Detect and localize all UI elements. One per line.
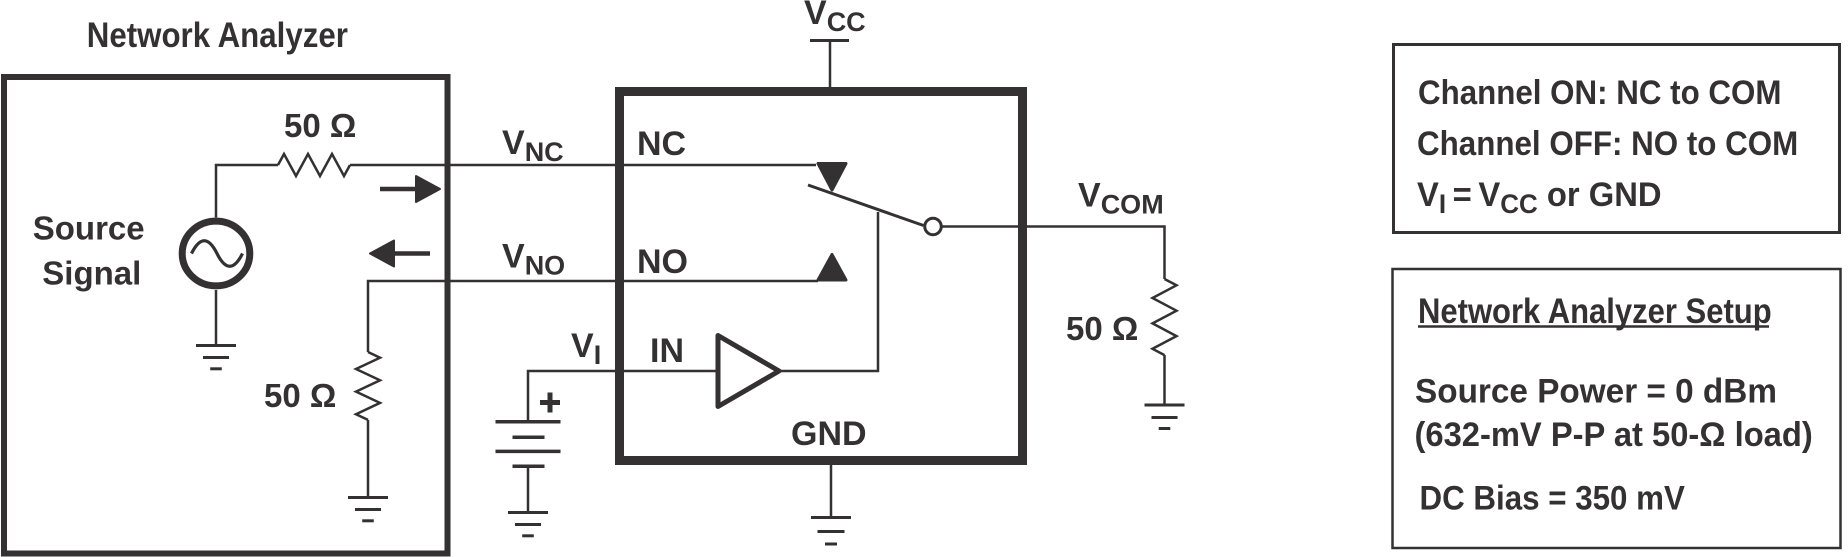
svg-text:NO: NO xyxy=(637,243,688,281)
svg-text:Signal: Signal xyxy=(42,255,141,292)
switch IC box U1 xyxy=(620,92,1023,461)
wire GND pin to ground xyxy=(830,465,833,517)
VCC supply bar xyxy=(810,39,849,42)
wire source top to resistor xyxy=(216,165,278,218)
svg-text:50 Ω: 50 Ω xyxy=(284,107,356,144)
svg-text:Channel OFF: NO to COM: Channel OFF: NO to COM xyxy=(1417,124,1798,162)
switch pole circle (COM) xyxy=(925,218,942,235)
switch pole arm (diagonal) xyxy=(808,185,924,226)
svg-text:(632-mV P-P at 50-Ω load): (632-mV P-P at 50-Ω load) xyxy=(1415,416,1813,454)
wire resistor to ground xyxy=(367,420,370,497)
wire load resistor to ground xyxy=(1163,355,1166,405)
svg-text:Source: Source xyxy=(33,210,145,247)
svg-text:50 Ω: 50 Ω xyxy=(264,377,336,414)
svg-text:50 Ω: 50 Ω xyxy=(1066,310,1138,347)
underline for title xyxy=(1418,325,1769,328)
resistor 50 Ω (series, horizontal) xyxy=(278,154,350,176)
arrow left (signal direction out of NO) xyxy=(370,241,430,267)
resistor 50 Ω (NO termination, vertical) xyxy=(356,352,380,420)
arrow right (signal direction into NC) xyxy=(380,176,440,202)
svg-text:DC Bias = 350 mV: DC Bias = 350 mV xyxy=(1420,478,1686,516)
wire V_I net: battery to IN buffer xyxy=(528,371,718,422)
wire battery to ground xyxy=(527,466,530,512)
wire VCC to IC xyxy=(829,41,832,92)
NO contact triangle (up) xyxy=(818,255,846,281)
wire V_NO net: termination resistor to NO contact xyxy=(368,281,818,352)
ground (battery) xyxy=(508,513,548,536)
ground (COM load) xyxy=(1145,405,1185,429)
NC contact triangle (down) xyxy=(818,164,846,191)
battery V_I source xyxy=(496,422,561,467)
ground (NO termination) xyxy=(348,498,388,521)
svg-text:VI = VCC or GND: VI = VCC or GND xyxy=(1417,176,1662,219)
svg-text:Channel ON: NC to COM: Channel ON: NC to COM xyxy=(1418,73,1781,111)
svg-text:NC: NC xyxy=(637,125,686,163)
ground (IC GND) xyxy=(811,518,851,545)
wire source bottom to ground xyxy=(215,290,218,345)
note box 2 (network analyzer setup) xyxy=(1393,269,1841,548)
wire V_COM net: pole to load resistor xyxy=(941,227,1165,280)
Network Analyzer enclosure box xyxy=(4,77,448,554)
svg-text:IN: IN xyxy=(650,332,684,370)
ground (source) xyxy=(196,346,236,369)
IN buffer amplifier xyxy=(718,336,779,407)
svg-text:Network Analyzer: Network Analyzer xyxy=(87,16,348,55)
wire V_NC net: resistor to NC switch contact xyxy=(350,164,816,167)
note box 1 (channel states) xyxy=(1394,45,1840,233)
resistor 50 Ω (COM load, vertical) xyxy=(1153,279,1177,355)
wire buffer output to switch arm xyxy=(781,212,878,371)
svg-text:Source Power = 0 dBm: Source Power = 0 dBm xyxy=(1415,373,1777,410)
svg-text:GND: GND xyxy=(791,415,867,453)
AC source V1 (sine in circle) xyxy=(182,221,250,286)
plus sign (battery polarity) xyxy=(540,393,560,413)
